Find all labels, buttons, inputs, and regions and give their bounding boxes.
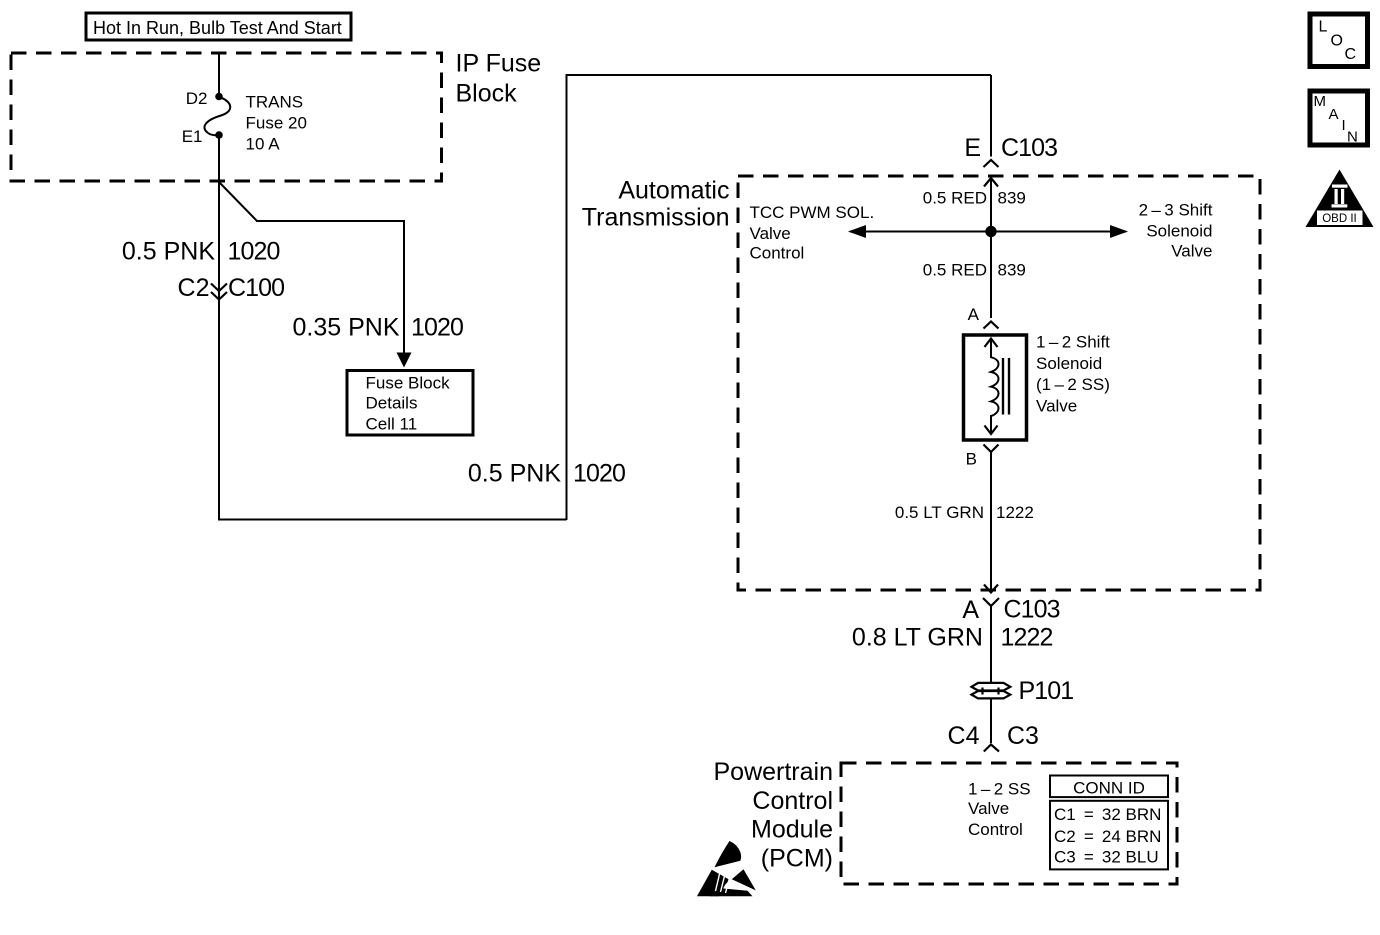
label Automatic Transmission xyxy=(582,177,730,232)
solenoid 1-2 SS valve box xyxy=(964,335,1027,440)
svg-text:839: 839 xyxy=(998,260,1026,279)
svg-text:C100: C100 xyxy=(228,274,284,302)
svg-text:1 – 2 Shift: 1 – 2 Shift xyxy=(1036,333,1110,352)
fuse value label TRANS Fuse 20 10 A xyxy=(246,93,307,154)
wire bottom horizontal run xyxy=(218,519,567,521)
svg-text:A: A xyxy=(1329,106,1339,123)
svg-text:0.5 PNK: 0.5 PNK xyxy=(122,238,215,266)
svg-text:C: C xyxy=(1345,46,1357,63)
svg-text:CONN ID: CONN ID xyxy=(1073,778,1145,797)
svg-text:C4: C4 xyxy=(948,722,980,750)
label IP Fuse Block xyxy=(456,50,542,108)
wire main vertical from fuse E1 down xyxy=(218,135,220,519)
wire from P101 to PCM connector xyxy=(990,699,992,744)
svg-text:Fuse Block: Fuse Block xyxy=(366,374,451,393)
svg-text:Hot In Run, Bulb Test And Star: Hot In Run, Bulb Test And Start xyxy=(93,18,342,38)
core lines xyxy=(1002,358,1004,415)
svg-text:Solenoid: Solenoid xyxy=(1036,354,1102,373)
junction dot xyxy=(985,226,996,237)
arrowhead into Fuse Block Details xyxy=(397,353,412,368)
svg-text:Transmission: Transmission xyxy=(582,204,730,232)
svg-text:Powertrain: Powertrain xyxy=(714,758,834,786)
svg-text:C2: C2 xyxy=(178,274,210,302)
wire label 0.5 PNK 1020 xyxy=(122,238,280,266)
wire label 0.5 PNK 1020 (second) xyxy=(468,460,625,488)
svg-text:Control: Control xyxy=(752,787,833,815)
wire top horizontal run xyxy=(566,74,992,76)
wire inside AT box with entry arrow (up) xyxy=(984,178,998,318)
connector C2 C100 (double chevron) xyxy=(178,274,285,302)
svg-text:Cell 11: Cell 11 xyxy=(366,415,418,434)
svg-text:C103: C103 xyxy=(1001,134,1057,162)
wire branch diagonal from node at IP box edge xyxy=(219,182,257,221)
svg-text:Valve: Valve xyxy=(1036,397,1077,416)
svg-text:P101: P101 xyxy=(1019,677,1074,705)
Fuse Block Details Cell 11 box xyxy=(347,371,473,436)
wire horizontal to TCC PWM (left arrow) and 2-3 shift (right arrow) xyxy=(848,225,1128,238)
svg-text:1020: 1020 xyxy=(411,314,463,342)
svg-text:B: B xyxy=(966,450,977,469)
svg-text:Control: Control xyxy=(968,820,1023,839)
coil arcs xyxy=(991,357,999,416)
svg-text:A: A xyxy=(968,305,980,324)
svg-text:C1 = 32 BRN: C1 = 32 BRN xyxy=(1054,805,1161,824)
svg-text:C3 = 32 BLU: C3 = 32 BLU xyxy=(1054,848,1159,867)
coil axis with arrows xyxy=(990,339,992,358)
svg-text:839: 839 xyxy=(998,189,1026,208)
svg-text:A: A xyxy=(962,596,979,624)
label TCC PWM SOL. Valve Control xyxy=(750,203,875,263)
Automatic Transmission dashed box xyxy=(738,176,1260,590)
svg-text:Valve: Valve xyxy=(750,224,791,243)
svg-text:0.8 LT GRN: 0.8 LT GRN xyxy=(852,624,983,652)
pin D2 dot xyxy=(215,93,223,101)
connector C4 C3 chevron xyxy=(948,722,1039,752)
label 1-2 SS Valve Control xyxy=(968,780,1031,839)
svg-text:1020: 1020 xyxy=(573,460,625,488)
connector E C103 chevron xyxy=(964,134,1057,167)
svg-text:Automatic: Automatic xyxy=(618,177,729,205)
svg-text:0.5 RED: 0.5 RED xyxy=(923,260,987,279)
svg-text:C3: C3 xyxy=(1007,722,1039,750)
wire label 0.35 PNK 1020 xyxy=(292,314,463,342)
pin B Y-connector below solenoid xyxy=(966,445,999,469)
svg-text:D2: D2 xyxy=(186,89,208,108)
svg-text:TCC PWM SOL.: TCC PWM SOL. xyxy=(750,203,875,222)
svg-text:0.5 RED: 0.5 RED xyxy=(923,189,987,208)
IP Fuse Block dashed box xyxy=(11,53,442,181)
label 1-2 Shift Solenoid (1-2 SS) Valve xyxy=(1036,333,1110,416)
svg-text:2 – 3 Shift: 2 – 3 Shift xyxy=(1139,200,1213,219)
svg-text:C103: C103 xyxy=(1004,596,1060,624)
CONN ID table xyxy=(1050,776,1168,870)
splice pass-through P101 xyxy=(972,677,1074,705)
icon MAIN box xyxy=(1310,91,1368,146)
svg-text:0.35 PNK: 0.35 PNK xyxy=(292,314,399,342)
svg-text:(1 – 2 SS): (1 – 2 SS) xyxy=(1036,375,1110,394)
svg-text:I: I xyxy=(1342,117,1346,134)
wire from C103 to P101 xyxy=(990,606,992,683)
svg-text:Module: Module xyxy=(751,816,833,844)
label Powertrain Control Module (PCM) xyxy=(714,758,834,872)
ESD sensitivity symbol xyxy=(697,841,756,896)
icon OBD II triangle xyxy=(1306,170,1374,228)
wire label 0.5 LT GRN 1222 xyxy=(895,503,1034,522)
svg-text:1222: 1222 xyxy=(1001,624,1053,652)
svg-text:Details: Details xyxy=(366,394,418,413)
svg-text:1 – 2 SS: 1 – 2 SS xyxy=(968,780,1031,799)
wire right vertical run xyxy=(566,75,568,520)
wire branch vertical down to details box xyxy=(403,220,405,354)
svg-text:L: L xyxy=(1319,19,1328,36)
pin A chevron above solenoid xyxy=(968,305,999,329)
svg-text:1020: 1020 xyxy=(228,238,280,266)
fuse TRANS Fuse 20 (S-curve element) xyxy=(204,97,230,135)
svg-text:N: N xyxy=(1347,129,1358,146)
label 2-3 Shift Solenoid Valve xyxy=(1139,200,1213,260)
wire label 0.5 RED 839 (upper) xyxy=(923,189,1026,208)
svg-text:10 A: 10 A xyxy=(246,135,281,154)
wire branch horizontal xyxy=(256,220,404,222)
svg-text:Solenoid: Solenoid xyxy=(1146,221,1212,240)
wire down to connector C103 pin E xyxy=(990,75,992,157)
svg-text:Valve: Valve xyxy=(968,799,1009,818)
svg-text:Valve: Valve xyxy=(1171,242,1212,261)
connector A C103 (Y symbol) below AT box xyxy=(962,596,1059,625)
pin E1 dot xyxy=(215,131,223,139)
svg-text:IP Fuse: IP Fuse xyxy=(456,50,542,78)
svg-text:TRANS: TRANS xyxy=(246,93,304,112)
svg-text:OBD II: OBD II xyxy=(1322,213,1357,225)
svg-text:Block: Block xyxy=(456,80,518,108)
svg-text:E1: E1 xyxy=(182,127,203,146)
svg-text:C2 = 24 BRN: C2 = 24 BRN xyxy=(1054,827,1161,846)
PCM dashed box xyxy=(841,763,1177,884)
svg-text:Fuse 20: Fuse 20 xyxy=(246,114,307,133)
wire label 0.5 RED 839 (lower) xyxy=(923,260,1026,279)
wire from box edge down to fuse pin D2 xyxy=(218,54,220,97)
svg-text:O: O xyxy=(1331,33,1343,50)
svg-text:0.5 PNK: 0.5 PNK xyxy=(468,460,561,488)
icon LOC box xyxy=(1310,14,1368,67)
svg-text:1222: 1222 xyxy=(996,503,1034,522)
svg-text:(PCM): (PCM) xyxy=(761,844,833,872)
svg-text:M: M xyxy=(1314,93,1327,110)
wire down inside AT box with exit arrow (down) xyxy=(984,452,998,593)
svg-text:0.5 LT GRN: 0.5 LT GRN xyxy=(895,503,984,522)
svg-text:Control: Control xyxy=(750,244,805,263)
svg-text:E: E xyxy=(964,134,981,162)
title box Hot In Run, Bulb Test And Start xyxy=(86,13,351,40)
wire label 0.8 LT GRN 1222 xyxy=(852,624,1053,652)
